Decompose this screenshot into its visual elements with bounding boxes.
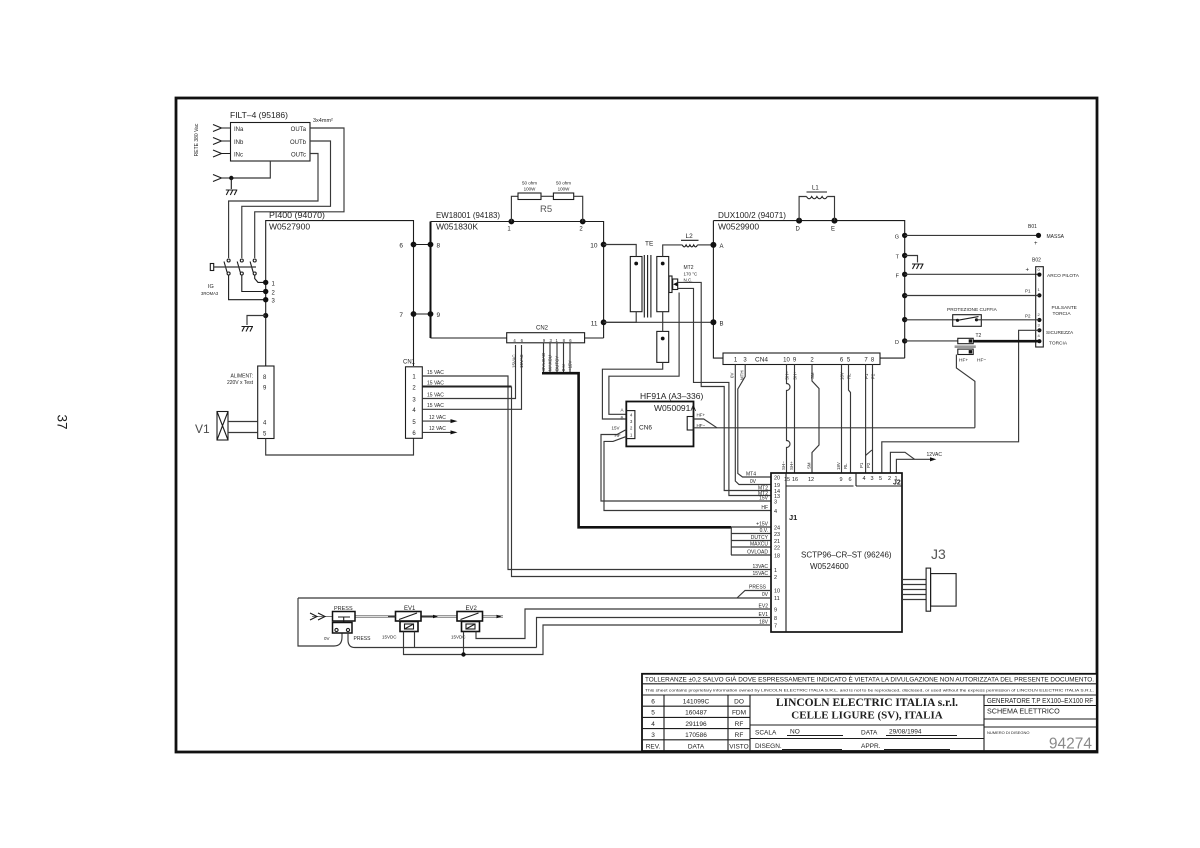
wire CN4 pin1 0V to J1 pin19 — [735, 365, 771, 486]
svg-text:15VDC: 15VDC — [382, 635, 397, 640]
svg-text:DATA: DATA — [861, 730, 878, 737]
DUX pin D right — [895, 338, 907, 346]
CN4 rotated pin labels — [730, 370, 876, 380]
safety switch PROTEZIONE CUFFIA — [947, 307, 998, 326]
svg-text:12: 12 — [808, 477, 814, 483]
svg-text:94274: 94274 — [1049, 736, 1092, 753]
resistor R5 label — [540, 204, 552, 215]
svg-text:L1: L1 — [812, 186, 819, 192]
svg-text:0V: 0V — [730, 373, 735, 378]
svg-text:8: 8 — [437, 243, 441, 250]
svg-text:P2: P2 — [866, 462, 871, 468]
drawing frame — [176, 98, 1097, 752]
svg-text:SCTP96–CR–ST (96246): SCTP96–CR–ST (96246) — [801, 551, 892, 560]
chopper module DUX100/2 labels — [718, 210, 786, 232]
transformer TE core — [644, 255, 651, 318]
gas line — [310, 613, 503, 620]
svg-text:W0527900: W0527900 — [269, 222, 310, 232]
svg-text:INa: INa — [234, 127, 244, 133]
svg-text:P2: P2 — [1025, 313, 1031, 318]
wire EV coils common to J1 pin7 — [404, 625, 772, 657]
svg-text:CN6: CN6 — [639, 425, 652, 432]
wire MT2 lower to J1 pin13 — [678, 288, 771, 495]
wire F to B02 pin0 — [905, 268, 1040, 275]
svg-text:9: 9 — [774, 608, 777, 614]
thermostat MT2 — [669, 265, 698, 293]
svg-text:12 VAC: 12 VAC — [429, 426, 446, 432]
wire TE secondary bottom / node B line — [604, 312, 714, 323]
wire CN4 pin9 SH+ to J1 pin16 — [794, 365, 796, 474]
switch IG pole 1 — [224, 259, 266, 300]
title row tolleranze — [645, 675, 1094, 684]
HF91A connector CN6 — [620, 408, 652, 439]
svg-text:170 °C: 170 °C — [684, 272, 699, 277]
wire SICUREZZA B02 pin3 to J2 pin5 — [882, 330, 1040, 473]
svg-text:3: 3 — [870, 476, 873, 482]
svg-text:20: 20 — [774, 476, 780, 482]
svg-text:R5: R5 — [540, 204, 552, 215]
svg-text:11: 11 — [591, 320, 598, 327]
wire OUTb — [242, 141, 331, 258]
svg-text:B: B — [620, 415, 623, 420]
svg-text:4: 4 — [651, 721, 655, 728]
svg-text:L2: L2 — [686, 233, 694, 240]
svg-text:LINCOLN ELECTRIC ITALIA s.r.l.: LINCOLN ELECTRIC ITALIA s.r.l. — [776, 697, 958, 709]
svg-text:11: 11 — [774, 596, 780, 602]
svg-text:100W: 100W — [558, 187, 571, 192]
wire CN1 pin1 15VAC to J1 13VAC — [422, 370, 771, 570]
PFC module EW18001 labels — [436, 210, 500, 232]
CN2 rotated pin labels — [512, 353, 573, 371]
svg-text:15 VAC: 15 VAC — [427, 403, 444, 409]
svg-text:OUTc: OUTc — [291, 153, 306, 159]
wire OUTc — [229, 154, 318, 259]
svg-text:23: 23 — [774, 532, 780, 538]
svg-text:1: 1 — [774, 568, 777, 574]
svg-text:ARCO PILOTA: ARCO PILOTA — [1047, 273, 1080, 279]
company name block — [776, 697, 958, 722]
svg-text:PI400 (94070): PI400 (94070) — [269, 210, 325, 220]
svg-text:5: 5 — [651, 710, 655, 717]
svg-text:15 VAC: 15 VAC — [427, 380, 444, 386]
net label RETE 380 Vac — [194, 123, 200, 156]
svg-text:B02: B02 — [1032, 258, 1041, 264]
wire PRESS switch right — [348, 633, 355, 648]
svg-text:B01: B01 — [1028, 224, 1037, 230]
wire J2 pin2 12VAC — [890, 452, 914, 473]
pressure switch PRESS — [324, 606, 371, 642]
PI400 pin 2 — [263, 289, 276, 297]
svg-text:DATA: DATA — [688, 743, 705, 750]
svg-text:HF91A (A3–336): HF91A (A3–336) — [640, 391, 703, 401]
svg-text:7: 7 — [774, 624, 777, 630]
svg-text:8: 8 — [774, 616, 777, 622]
svg-text:6: 6 — [848, 477, 851, 483]
switch IG handle and link — [210, 264, 256, 271]
svg-text:HF+: HF+ — [959, 358, 968, 364]
svg-text:12VAC: 12VAC — [927, 452, 943, 458]
wire P2 to protection switch — [905, 319, 958, 321]
svg-text:CN2: CN2 — [536, 326, 549, 332]
B02 labels — [1046, 273, 1080, 347]
svg-text:2: 2 — [888, 476, 891, 482]
lamp V1 — [195, 412, 258, 441]
svg-text:OUTa: OUTa — [291, 127, 307, 133]
svg-text:15VAC: 15VAC — [519, 354, 524, 368]
bus CN2 to J1 — [542, 373, 731, 555]
svg-text:7: 7 — [399, 312, 403, 319]
wire CN1 pin5 12VAC output — [422, 415, 457, 423]
wire HF+ — [694, 413, 718, 428]
svg-text:HF: HF — [761, 505, 768, 511]
input arrow INa — [213, 125, 231, 132]
svg-text:DISEGN.: DISEGN. — [755, 743, 782, 750]
svg-text:29/08/1994: 29/08/1994 — [889, 729, 922, 736]
wire MT2 upper to J1 pin14 — [678, 282, 771, 490]
HF91A output pin box — [687, 417, 693, 431]
svg-text:SH−: SH− — [781, 461, 786, 470]
solenoid valve EV2 — [451, 606, 483, 640]
DUX pin E top — [831, 218, 838, 233]
DUX pin F — [896, 272, 908, 280]
svg-text:VISTO: VISTO — [729, 743, 748, 750]
svg-text:6: 6 — [399, 243, 403, 250]
wire 0V press line to J1 pin11 — [298, 597, 771, 599]
drawing title block right — [984, 695, 1097, 753]
wire EV1 coil to J1 pin8 — [355, 618, 771, 648]
chopper module DUX100/2 outline — [713, 221, 904, 359]
wire CN4 pin2 SM to J1 pin12 — [812, 365, 819, 474]
svg-text:0V: 0V — [324, 636, 330, 641]
transformer TE primary winding — [630, 257, 642, 312]
svg-text:SCALA: SCALA — [755, 730, 777, 737]
svg-text:0V: 0V — [762, 592, 769, 598]
svg-text:NO: NO — [790, 729, 800, 736]
svg-text:15V: 15V — [611, 426, 619, 431]
svg-text:50 ohm: 50 ohm — [556, 181, 571, 186]
svg-text:3: 3 — [651, 732, 655, 739]
svg-text:9: 9 — [839, 477, 842, 483]
DUX pin T — [896, 253, 908, 261]
svg-text:A: A — [720, 244, 724, 250]
svg-text:22: 22 — [774, 546, 780, 552]
wire PI400 pin6 to EW pin8 — [414, 244, 431, 246]
wire HF91A HF to J1 pin4 — [604, 433, 771, 511]
svg-text:5: 5 — [879, 476, 882, 482]
connector J3 — [902, 546, 956, 611]
svg-text:15VAC: 15VAC — [512, 354, 517, 368]
wire TE primary top — [604, 245, 637, 257]
svg-text:RL: RL — [843, 463, 848, 469]
transformer TE aux winding — [657, 322, 669, 362]
svg-text:10: 10 — [783, 358, 790, 364]
svg-text:G: G — [895, 234, 899, 240]
svg-text:+: + — [1034, 241, 1038, 247]
switch IG label — [201, 284, 219, 296]
inverter module PI400 outline — [266, 221, 414, 366]
scala data row — [750, 725, 984, 750]
svg-text:DO: DO — [734, 699, 744, 706]
svg-text:0.V.: 0.V. — [760, 528, 768, 534]
svg-text:SCHEMA ELETTRICO: SCHEMA ELETTRICO — [987, 707, 1060, 716]
svg-text:ALIMENT:: ALIMENT: — [230, 374, 253, 380]
svg-text:PULSANTE: PULSANTE — [1052, 305, 1077, 311]
svg-text:MASSA: MASSA — [1047, 234, 1065, 240]
svg-text:J1: J1 — [789, 513, 797, 522]
svg-text:50 ohm: 50 ohm — [522, 181, 537, 186]
HF unit HF91A labels — [640, 391, 703, 413]
svg-text:CN4: CN4 — [755, 357, 768, 364]
wire CN1 pin2 15VAC to J1 15VAC — [422, 380, 771, 576]
svg-text:MT4: MT4 — [746, 472, 756, 478]
svg-text:D: D — [796, 227, 801, 233]
svg-text:RF: RF — [735, 721, 744, 728]
svg-text:SH+: SH+ — [789, 461, 794, 470]
ground G1 — [226, 178, 238, 195]
ground G2 at PI400 — [242, 313, 269, 332]
svg-text:+15V: +15V — [756, 522, 768, 528]
svg-text:TE: TE — [645, 241, 654, 248]
DUX pin G — [895, 233, 908, 241]
J1 top pin numbers — [784, 476, 898, 483]
page number 37 — [54, 414, 69, 429]
svg-text:PRESS: PRESS — [749, 585, 767, 591]
svg-text:HF: HF — [615, 433, 621, 438]
filter FILT-4 label — [230, 110, 288, 120]
svg-text:W0529900: W0529900 — [718, 222, 759, 232]
svg-text:E: E — [831, 227, 835, 233]
svg-text:15VAC: 15VAC — [753, 571, 769, 577]
wire CN4 pin8 P2 to J2 pin3 — [872, 365, 874, 474]
svg-text:10: 10 — [590, 243, 598, 250]
connector CN1 — [403, 360, 422, 439]
svg-text:4: 4 — [774, 509, 777, 515]
svg-text:W051830K: W051830K — [436, 222, 478, 232]
wire CN1 pin6 12VAC output — [422, 426, 457, 434]
wire D to T2 primary — [905, 340, 958, 342]
resistor R5a 50ohm — [511, 181, 541, 222]
PI400 pin 6 — [399, 242, 416, 250]
J1 left wire labels — [749, 486, 769, 626]
svg-text:15V: 15V — [759, 496, 769, 502]
svg-text:141099C: 141099C — [683, 699, 710, 706]
svg-text:B: B — [720, 321, 724, 327]
svg-text:INb: INb — [234, 140, 244, 146]
wire HF- to T2 — [694, 423, 975, 428]
svg-text:APPR.: APPR. — [861, 743, 881, 750]
svg-text:SICUREZZA: SICUREZZA — [1046, 330, 1074, 336]
svg-text:15 VAC: 15 VAC — [427, 392, 444, 398]
wire PRESS to J1 pin10 — [737, 591, 771, 599]
svg-text:CELLE LIGURE (SV), ITALIA: CELLE LIGURE (SV), ITALIA — [791, 710, 942, 722]
svg-text:P1: P1 — [864, 373, 869, 379]
wire CN4 pin5 RL to J1 pin6 — [849, 365, 851, 474]
svg-text:10: 10 — [774, 589, 780, 595]
svg-text:3: 3 — [774, 500, 777, 506]
wire J2 pin1 12VAC arrow — [896, 452, 942, 473]
svg-text:15 VAC: 15 VAC — [427, 370, 444, 376]
wire PI400 bottom — [266, 439, 414, 456]
svg-text:IG: IG — [208, 284, 214, 290]
svg-text:REV.: REV. — [646, 743, 661, 750]
PI400 pin 1 — [263, 280, 276, 288]
svg-text:PROTEZIONE CUFFIA: PROTEZIONE CUFFIA — [947, 307, 998, 313]
DUX pin P2 — [902, 317, 907, 322]
svg-text:MAXCU: MAXCU — [750, 542, 768, 548]
svg-text:18V: 18V — [836, 462, 841, 470]
EW pin 1 — [507, 219, 514, 233]
svg-text:FDM: FDM — [732, 710, 746, 717]
svg-text:PRESS: PRESS — [354, 636, 372, 642]
svg-text:SM: SM — [806, 462, 811, 469]
svg-text:18: 18 — [774, 554, 780, 560]
wire T2 secondary to HF- line — [956, 355, 975, 428]
svg-text:16: 16 — [792, 477, 798, 483]
J1 labels — [789, 480, 901, 572]
svg-text:160487: 160487 — [685, 710, 707, 717]
svg-text:W050091A: W050091A — [654, 403, 696, 413]
svg-text:1: 1 — [894, 476, 897, 482]
svg-text:9: 9 — [437, 312, 441, 319]
HF unit HF91A outline — [626, 402, 693, 447]
input arrow INb — [213, 138, 231, 145]
svg-text:0V: 0V — [750, 479, 757, 485]
EW pin 11 — [591, 319, 607, 327]
connector CN4 — [723, 353, 880, 365]
svg-text:170586: 170586 — [685, 732, 707, 739]
PFC module EW18001 outline — [431, 222, 604, 339]
wire P1 to B02 pin1 — [905, 289, 1040, 296]
svg-text:24: 24 — [774, 526, 780, 532]
switch IG pole 2 — [237, 259, 266, 292]
svg-text:12 VAC: 12 VAC — [429, 415, 446, 421]
svg-text:CN1: CN1 — [403, 360, 416, 366]
wire HF91A 15V to J1 pin3 — [601, 426, 771, 502]
svg-text:A: A — [620, 408, 623, 413]
svg-text:OVLOAD: OVLOAD — [747, 550, 768, 556]
B02 pin dots — [1037, 273, 1041, 344]
wire neutral — [229, 161, 270, 180]
input arrow neutral — [213, 175, 231, 182]
svg-text:T2: T2 — [976, 333, 982, 339]
wires CN2 control pins drop — [544, 343, 571, 373]
wire T2 to TORCIA thick — [973, 340, 1039, 343]
svg-text:GENERATORE T.P EX100–EX100 RF: GENERATORE T.P EX100–EX100 RF — [987, 696, 1094, 705]
svg-text:TOLLERANZE ±0,2 SALVO GIÀ DOVE: TOLLERANZE ±0,2 SALVO GIÀ DOVE ESPRESSAM… — [645, 675, 1094, 684]
input arrow INc — [213, 150, 231, 157]
wire PI400 pin7 to EW pin9 — [414, 313, 431, 315]
EW pin 10 — [590, 242, 606, 250]
title block frame — [642, 674, 1097, 751]
svg-text:100W: 100W — [524, 187, 537, 192]
EW pin 9 — [428, 311, 441, 319]
wire CN4 pin6 18V to J1 pin9 — [841, 365, 843, 474]
connector B02 — [1032, 258, 1043, 348]
svg-text:FILT–4 (95186): FILT–4 (95186) — [230, 110, 288, 120]
ground G3 at pin T — [905, 256, 924, 270]
svg-text:291196: 291196 — [685, 721, 707, 728]
J1 left pin numbers — [774, 476, 780, 630]
inverter module PI400 labels — [269, 210, 325, 232]
svg-text:RETE 380 Vac: RETE 380 Vac — [194, 123, 200, 156]
wire CN1 pin4 15VAC to CN2 pin6 — [422, 345, 521, 409]
svg-text:220V x Test: 220V x Test — [227, 380, 254, 386]
DUX pin A — [710, 242, 723, 250]
connector CN2 — [507, 326, 585, 343]
svg-text:NUMERO DI DISEGNO: NUMERO DI DISEGNO — [987, 730, 1029, 735]
wire OUTa — [255, 128, 344, 258]
DUX pin B — [710, 319, 723, 327]
svg-text:MT2: MT2 — [684, 265, 694, 271]
svg-text:TORCIA: TORCIA — [1053, 311, 1072, 317]
svg-text:OUTb: OUTb — [290, 140, 307, 146]
svg-text:6: 6 — [651, 699, 655, 706]
svg-text:N.C.: N.C. — [684, 278, 693, 283]
transformer TE label — [645, 241, 654, 248]
wire TE secondary top to L2 — [663, 245, 683, 257]
wires bus to J1 pins 24 23 21 22 18 — [731, 522, 771, 556]
revision table — [642, 695, 750, 751]
svg-text:HF−: HF− — [977, 358, 986, 364]
wire CN4 pin10 SH- to J1 pin15 — [787, 365, 791, 474]
EW pin 2 — [579, 219, 585, 233]
transformer TE secondary winding — [657, 257, 669, 312]
svg-text:HF+: HF+ — [697, 413, 706, 418]
svg-text:2: 2 — [774, 575, 777, 581]
inductor L2 — [681, 233, 713, 247]
svg-text:13VAC: 13VAC — [753, 564, 769, 570]
svg-text:EW18001 (94183): EW18001 (94183) — [436, 210, 500, 220]
wire MT2 to HF91A pin A — [609, 293, 679, 415]
control board J1 outline — [771, 473, 902, 632]
svg-text:P1: P1 — [1025, 289, 1031, 294]
svg-text:This sheet contains proprietar: This sheet contains proprietary informat… — [645, 688, 1094, 693]
svg-text:3ROMA3: 3ROMA3 — [201, 291, 219, 296]
svg-text:P1: P1 — [859, 462, 864, 468]
filter FILT-4 body — [231, 123, 311, 162]
terminal B01 MASSA — [1028, 224, 1065, 247]
svg-text:4: 4 — [862, 476, 865, 482]
svg-text:D: D — [895, 340, 899, 346]
title row proprietary — [645, 688, 1094, 693]
solenoid valve EV1 — [382, 606, 421, 640]
svg-text:DUX100/2 (94071): DUX100/2 (94071) — [718, 210, 786, 220]
DUX pin D top — [796, 218, 803, 233]
pneumatic enclosure left — [298, 598, 342, 646]
svg-text:37: 37 — [54, 414, 69, 429]
wire TE primary bottom — [604, 312, 637, 323]
resistor R5b 50ohm — [541, 181, 583, 222]
wire G to B01 — [905, 234, 1039, 236]
svg-text:+: + — [1026, 268, 1030, 274]
wire EV2 coil to J1 pin9 — [476, 609, 771, 639]
DUX pin P1 — [902, 293, 907, 298]
inductor L1 — [799, 186, 834, 221]
PI400 pin 7 — [399, 311, 416, 319]
wire protection switch to B02 pin2 — [977, 313, 1040, 320]
wire CN1 pin3 15VAC to CN2 pin4 — [422, 345, 515, 399]
wire CN4 pin7 P1 to J2 pin4 — [866, 365, 872, 474]
EW pin 8 — [428, 242, 441, 250]
svg-text:21: 21 — [774, 539, 780, 545]
svg-text:V1: V1 — [195, 422, 210, 436]
PI400 pin 3 — [263, 297, 276, 305]
J1 rotated pin labels top — [781, 461, 871, 470]
svg-text:3x4mm²: 3x4mm² — [313, 118, 333, 124]
svg-text:DUTCY: DUTCY — [751, 535, 769, 541]
svg-text:W0524600: W0524600 — [810, 562, 849, 571]
svg-text:J3: J3 — [931, 546, 946, 562]
